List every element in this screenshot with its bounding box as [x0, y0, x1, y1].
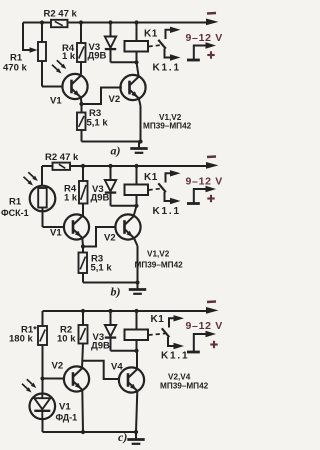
svg-text:470 k: 470 k — [3, 63, 27, 74]
svg-text:МП39–МП42: МП39–МП42 — [135, 261, 184, 270]
svg-text:V1: V1 — [59, 402, 71, 413]
svg-text:Д9В: Д9В — [91, 341, 110, 352]
svg-text:1 k: 1 k — [64, 193, 78, 204]
svg-text:180 k: 180 k — [9, 334, 33, 345]
svg-text:1 k: 1 k — [62, 51, 76, 62]
svg-text:K1.1: K1.1 — [153, 206, 181, 217]
svg-text:R2 47 k: R2 47 k — [44, 9, 78, 20]
svg-text:ФД-1: ФД-1 — [56, 413, 78, 423]
svg-text:K1.1: K1.1 — [153, 63, 181, 74]
svg-text:V2: V2 — [109, 94, 121, 105]
svg-text:9–12 V: 9–12 V — [186, 32, 223, 44]
svg-text:R2 47 k: R2 47 k — [45, 152, 79, 163]
svg-text:V4: V4 — [111, 362, 123, 373]
svg-text:5,1 k: 5,1 k — [91, 263, 113, 274]
svg-text:V2: V2 — [52, 361, 64, 372]
svg-text:V1,V2: V1,V2 — [147, 250, 170, 259]
svg-text:a): a) — [111, 144, 121, 158]
svg-text:10 k: 10 k — [57, 334, 76, 345]
svg-text:c): c) — [118, 430, 127, 444]
svg-text:b): b) — [111, 285, 121, 299]
svg-text:K1.1: K1.1 — [161, 351, 189, 362]
svg-text:ФСК-1: ФСК-1 — [1, 208, 29, 218]
svg-text:9–12 V: 9–12 V — [186, 176, 223, 188]
svg-text:МП39–МП42: МП39–МП42 — [143, 122, 192, 131]
svg-text:V1: V1 — [50, 96, 62, 107]
svg-text:Д9В: Д9В — [88, 51, 107, 62]
svg-text:V2,V4: V2,V4 — [168, 373, 191, 382]
svg-text:5,1 k: 5,1 k — [87, 118, 109, 129]
svg-text:9–12 V: 9–12 V — [186, 320, 223, 332]
svg-text:K1: K1 — [151, 314, 165, 325]
svg-text:V2: V2 — [104, 233, 116, 244]
svg-text:Д9В: Д9В — [91, 193, 110, 204]
svg-text:МП39–МП42: МП39–МП42 — [160, 382, 209, 391]
svg-text:R1: R1 — [9, 197, 22, 208]
svg-text:V1: V1 — [50, 228, 62, 239]
svg-text:K1: K1 — [144, 29, 158, 40]
svg-text:K1: K1 — [144, 172, 158, 183]
